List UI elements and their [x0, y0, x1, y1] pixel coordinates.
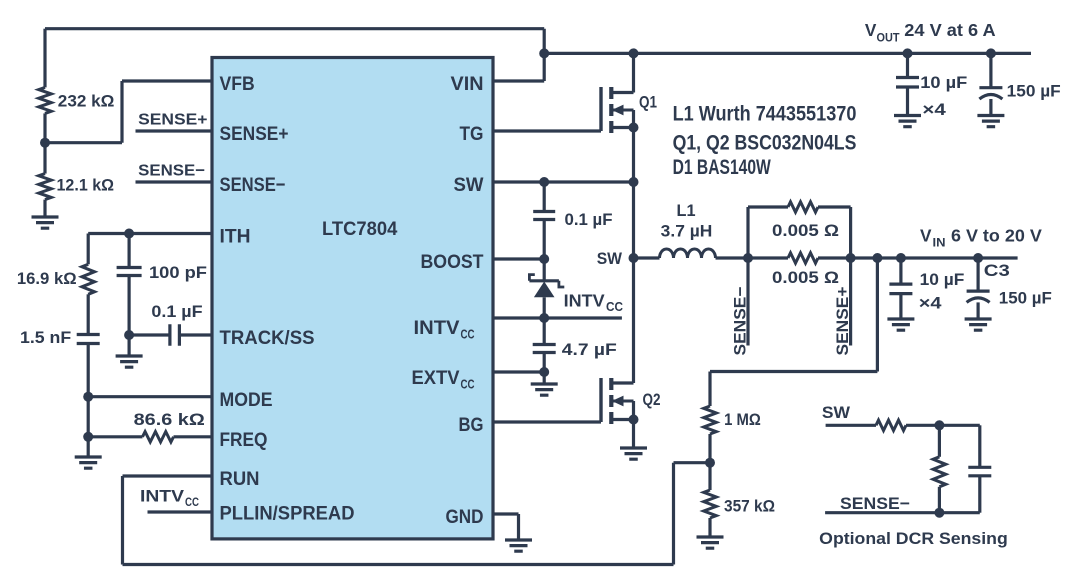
svg-text:0.005 Ω: 0.005 Ω: [772, 222, 839, 240]
svg-text:VIN: VIN: [451, 73, 484, 95]
svg-text:CC: CC: [606, 300, 623, 314]
svg-text:GND: GND: [446, 506, 484, 528]
svg-text:L1 Wurth 7443551370: L1 Wurth 7443551370: [673, 102, 857, 125]
svg-text:D1 BAS140W: D1 BAS140W: [673, 156, 771, 179]
svg-text:3.7 µH: 3.7 µH: [661, 223, 713, 241]
svg-text:150 µF: 150 µF: [999, 290, 1052, 308]
svg-text:SENSE−: SENSE−: [138, 163, 205, 180]
svg-text:SW: SW: [822, 403, 851, 422]
svg-text:10 µF: 10 µF: [920, 74, 967, 92]
svg-text:16.9 kΩ: 16.9 kΩ: [17, 270, 77, 288]
svg-text:10 µF: 10 µF: [920, 271, 965, 289]
svg-text:RUN: RUN: [220, 468, 260, 490]
svg-text:0.1 µF: 0.1 µF: [151, 303, 202, 321]
svg-text:TG: TG: [460, 123, 484, 145]
svg-text:86.6 kΩ: 86.6 kΩ: [134, 411, 205, 429]
svg-text:4.7 µF: 4.7 µF: [562, 341, 617, 359]
svg-text:V: V: [865, 20, 877, 40]
svg-text:INTV: INTV: [140, 488, 184, 506]
svg-text:SENSE+: SENSE+: [138, 111, 207, 128]
svg-text:357 kΩ: 357 kΩ: [724, 498, 775, 516]
svg-text:SW: SW: [454, 174, 485, 196]
svg-text:FREQ: FREQ: [220, 429, 268, 451]
svg-text:Q2: Q2: [643, 390, 661, 409]
svg-text:SENSE−: SENSE−: [840, 494, 910, 513]
svg-text:C3: C3: [984, 262, 1010, 280]
svg-text:V: V: [920, 225, 932, 245]
svg-text:VFB: VFB: [220, 73, 255, 95]
svg-text:INTV: INTV: [564, 291, 605, 311]
svg-text:BG: BG: [459, 414, 484, 436]
svg-text:SENSE+: SENSE+: [220, 123, 289, 145]
svg-text:CC: CC: [461, 327, 475, 342]
svg-text:×4: ×4: [919, 294, 943, 312]
svg-text:12.1 kΩ: 12.1 kΩ: [57, 176, 115, 194]
svg-text:LTC7804: LTC7804: [322, 218, 397, 240]
svg-text:1 MΩ: 1 MΩ: [724, 411, 761, 429]
svg-text:SENSE−: SENSE−: [220, 174, 286, 196]
svg-text:ITH: ITH: [220, 226, 251, 248]
svg-text:SW: SW: [597, 249, 623, 268]
svg-text:BOOST: BOOST: [421, 251, 484, 273]
svg-text:SENSE+: SENSE+: [834, 287, 852, 356]
svg-text:TRACK/SS: TRACK/SS: [220, 327, 315, 349]
svg-text:Optional DCR Sensing: Optional DCR Sensing: [819, 529, 1008, 548]
svg-text:PLLIN/SPREAD: PLLIN/SPREAD: [220, 503, 355, 525]
svg-text:6 V to 20 V: 6 V to 20 V: [951, 225, 1042, 245]
svg-text:EXTV: EXTV: [412, 367, 460, 389]
svg-text:MODE: MODE: [220, 389, 273, 411]
svg-text:Q1, Q2 BSC032N04LS: Q1, Q2 BSC032N04LS: [673, 131, 857, 154]
svg-text:0.1 µF: 0.1 µF: [565, 211, 613, 229]
svg-text:0.005 Ω: 0.005 Ω: [772, 269, 839, 287]
svg-text:150 µF: 150 µF: [1007, 82, 1061, 100]
svg-text:24 V at 6 A: 24 V at 6 A: [904, 20, 996, 40]
svg-text:SENSE−: SENSE−: [732, 287, 750, 356]
svg-text:232 kΩ: 232 kΩ: [58, 92, 115, 110]
svg-text:1.5 nF: 1.5 nF: [20, 329, 71, 347]
svg-text:CC: CC: [461, 377, 475, 392]
svg-text:INTV: INTV: [414, 317, 460, 339]
svg-text:Q1: Q1: [639, 93, 657, 112]
svg-text:OUT: OUT: [877, 31, 901, 45]
svg-text:L1: L1: [677, 202, 696, 220]
svg-text:IN: IN: [933, 235, 946, 249]
svg-text:CC: CC: [185, 495, 199, 509]
svg-text:×4: ×4: [922, 101, 946, 119]
svg-text:100 pF: 100 pF: [149, 264, 207, 282]
